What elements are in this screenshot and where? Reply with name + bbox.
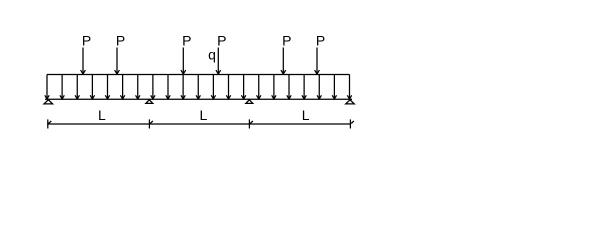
- distributed load q arrow 13: [226, 75, 230, 99]
- point load P arrow 1: [81, 48, 86, 74]
- distributed load q arrow 5: [105, 75, 109, 99]
- svg-text:P: P: [217, 33, 226, 49]
- dimension tick 1: [48, 119, 52, 128]
- svg-text:P: P: [82, 33, 91, 49]
- distributed load q arrow 6: [120, 75, 124, 99]
- svg-text:q: q: [208, 47, 216, 63]
- distributed load q arrow 7: [136, 75, 140, 99]
- distributed load q arrow 2: [60, 75, 64, 99]
- distributed load q arrow 3: [75, 75, 79, 99]
- beam (bottom chord line): [45, 98, 352, 100]
- beam diagram: three-span continuous beam with UDL q and point loads P: [0, 0, 600, 150]
- svg-text:P: P: [116, 33, 125, 49]
- distributed load q arrow 21: [347, 75, 351, 99]
- distributed load q arrow 1: [45, 75, 49, 99]
- dimension line: [47, 123, 350, 125]
- dimension tick 2: [149, 119, 153, 128]
- distributed load q arrow 14: [241, 75, 245, 99]
- distributed load q arrow 16: [272, 75, 276, 99]
- svg-text:P: P: [282, 33, 291, 49]
- support D (pin triangle): [346, 100, 355, 104]
- support B (pin triangle): [146, 100, 153, 104]
- distributed load q arrow 20: [332, 75, 336, 99]
- distributed load q arrow 9: [166, 75, 170, 99]
- distributed load q arrow 19: [317, 75, 321, 99]
- point load P arrow 4: [216, 48, 221, 74]
- distributed load q arrow 17: [287, 75, 291, 99]
- svg-text:L: L: [200, 107, 208, 123]
- svg-text:P: P: [316, 33, 325, 49]
- distributed load q arrow 4: [90, 75, 94, 99]
- point load P arrow 2: [115, 48, 120, 74]
- distributed load q arrow 12: [211, 75, 215, 99]
- wire: distributed load top line: [47, 74, 350, 76]
- point load P arrow 5: [281, 48, 286, 74]
- svg-text:L: L: [98, 107, 106, 123]
- support A (pin triangle): [44, 100, 53, 104]
- distributed load q arrow 10: [181, 75, 185, 99]
- dimension tick 3: [249, 119, 253, 128]
- point load P arrow 6: [315, 48, 320, 74]
- point load P arrow 3: [181, 48, 186, 74]
- svg-text:L: L: [302, 107, 310, 123]
- distributed load q arrow 8: [151, 75, 155, 99]
- distributed load q arrow 11: [196, 75, 200, 99]
- dimension tick 4: [350, 119, 354, 128]
- support C (pin triangle): [246, 100, 253, 104]
- distributed load q arrow 18: [302, 75, 306, 99]
- distributed load q arrow 15: [257, 75, 261, 99]
- svg-text:P: P: [182, 33, 191, 49]
